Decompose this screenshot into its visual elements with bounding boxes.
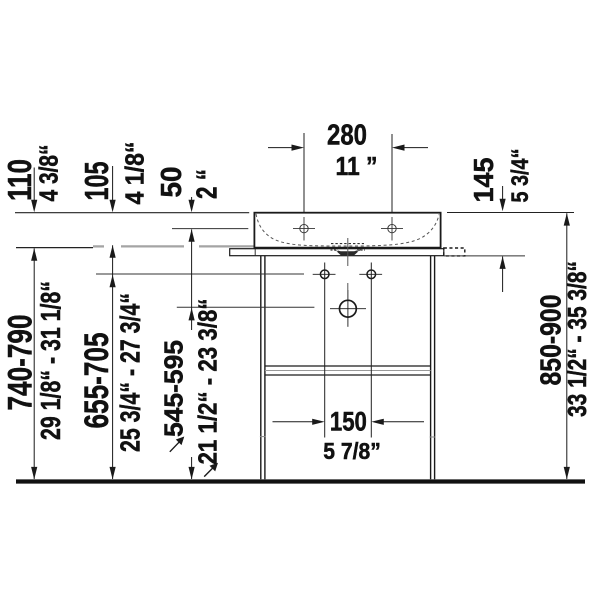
leg left foot joint — [260, 436, 266, 438]
washbasin bottom thick edge — [254, 247, 441, 249]
dimension line 110/740-790 at x=34.2 — [33, 168, 35, 480]
extension line right mounting hole down — [370, 263, 372, 438]
faucet hole right — [381, 217, 403, 241]
mounting hole left — [313, 270, 336, 279]
drain hole big — [330, 290, 366, 327]
drain fitting dashed — [331, 244, 366, 253]
mounting hole right — [359, 270, 382, 279]
dimension line 105/655-705 at x=112.6 — [112, 166, 114, 479]
drain tailpiece — [337, 251, 359, 256]
svg-text:4 1/8“: 4 1/8“ — [120, 142, 150, 205]
wire sink bottom extension line — [16, 247, 93, 249]
svg-text:150: 150 — [330, 407, 367, 437]
dimension line 50/545-595 at x=191.6 — [191, 197, 193, 479]
svg-text:545-595: 545-595 — [159, 340, 189, 437]
svg-text:280: 280 — [327, 120, 367, 152]
wire rim top line right segment — [447, 212, 574, 214]
wire 50mm leader line — [172, 228, 248, 230]
cross brace — [265, 366, 431, 375]
dimension line 850-900 at x=566.8 — [566, 213, 568, 479]
svg-text:5 3/4“: 5 3/4“ — [507, 149, 534, 203]
console leg left — [261, 256, 265, 480]
wire gray wall rail band — [93, 245, 440, 247]
console plate — [230, 249, 444, 256]
svg-text:11 ”: 11 ” — [336, 151, 378, 181]
svg-text:655-705: 655-705 — [78, 333, 116, 429]
leader arrow NE for 21 1/2 - 23 3/8 — [204, 463, 218, 477]
leader arrow NE for 545-595 — [170, 437, 185, 452]
wire plate bottom extension line — [444, 255, 525, 257]
cross brace mid line — [265, 370, 431, 372]
svg-text:2 “: 2 “ — [192, 169, 224, 199]
svg-text:33 1/2“ - 35 3/8“: 33 1/2“ - 35 3/8“ — [562, 261, 592, 417]
basin interior dashed curve — [256, 214, 439, 246]
svg-text:145: 145 — [468, 158, 499, 203]
extension line left faucet up — [303, 133, 305, 212]
console leg right — [431, 256, 435, 480]
sink front edge through plate — [254, 249, 256, 256]
wire small-hole leader line — [96, 273, 304, 275]
svg-text:25 3/4“ - 27 3/4“: 25 3/4“ - 27 3/4“ — [115, 293, 146, 452]
dimension line 145 at x=502.6 — [502, 186, 504, 292]
dimension 150 arrows — [273, 421, 425, 423]
washbasin outline — [254, 213, 440, 248]
svg-text:29 1/8“ - 31 1/8“: 29 1/8“ - 31 1/8“ — [35, 281, 66, 440]
extension line right faucet up — [391, 134, 393, 212]
svg-text:4 3/8“: 4 3/8“ — [34, 145, 64, 202]
wire big-hole leader line — [177, 306, 315, 308]
drain pipe line — [347, 238, 349, 266]
svg-text:21 1/2“ - 23 3/8“: 21 1/2“ - 23 3/8“ — [193, 299, 223, 465]
console bracket dashed extension — [444, 248, 465, 256]
dimension 280 arrows — [268, 147, 428, 149]
svg-text:105: 105 — [78, 162, 115, 201]
wire rim top line left segment — [15, 212, 249, 214]
floor line — [16, 479, 585, 483]
svg-text:50: 50 — [156, 167, 188, 198]
leg right foot joint — [430, 436, 436, 438]
svg-text:5 7/8”: 5 7/8” — [323, 438, 381, 464]
extension line left mounting hole down — [324, 263, 326, 438]
svg-text:740-790: 740-790 — [2, 315, 40, 411]
faucet hole left — [293, 217, 315, 241]
